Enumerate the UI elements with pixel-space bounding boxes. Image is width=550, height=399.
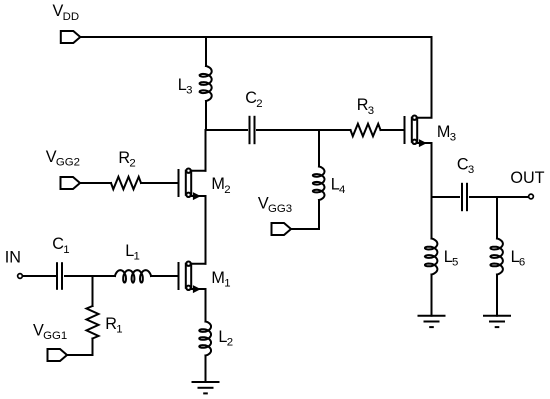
label C2 [245, 89, 262, 110]
svg-text:DD: DD [63, 11, 79, 23]
ground under L5 [419, 316, 445, 327]
wire VGG2 to R2 [80, 182, 111, 184]
wire C3 to OUT (via L6 tap) [470, 196, 528, 198]
svg-text:3: 3 [450, 132, 456, 144]
svg-text:2: 2 [129, 158, 135, 170]
transistor M3 [405, 116, 432, 147]
label R3 [357, 96, 374, 117]
svg-text:R: R [357, 96, 369, 114]
svg-text:3: 3 [468, 164, 474, 176]
terminal OUT [529, 194, 534, 199]
wire L6 bottom lead [496, 275, 498, 316]
wire node X to C2 [206, 129, 247, 131]
label VGG1 [33, 321, 67, 342]
resistor R1 [87, 306, 99, 339]
label L5 [444, 248, 459, 269]
svg-text:M: M [211, 269, 224, 287]
svg-text:2: 2 [256, 98, 262, 110]
inductor L5 [425, 239, 438, 275]
label VDD [53, 2, 80, 23]
svg-text:2: 2 [224, 184, 230, 196]
label C3 [457, 155, 474, 176]
svg-text:R: R [105, 315, 117, 333]
port VDD [61, 31, 81, 43]
wire M2 drain up to node X [205, 130, 207, 171]
svg-text:M: M [437, 123, 450, 141]
wire R1 bottom lead [92, 339, 94, 356]
wire VDD drop to M3 drain [431, 37, 433, 118]
svg-text:GG3: GG3 [268, 203, 292, 215]
wire VGG1 to R1 [67, 354, 93, 356]
wire L2 to ground [205, 356, 207, 383]
transistor M1 [179, 262, 206, 293]
label R1 [105, 315, 122, 336]
wire L1 to M1 gate [151, 275, 179, 277]
label VGG2 [46, 148, 80, 169]
label M3 [437, 123, 456, 144]
capacitor C3 [462, 184, 467, 210]
port VGG2 [61, 177, 81, 189]
wire R1 top lead [92, 276, 94, 306]
label M2 [211, 175, 230, 196]
svg-text:GG2: GG2 [56, 157, 80, 169]
svg-text:6: 6 [519, 257, 525, 269]
svg-text:1: 1 [224, 277, 230, 289]
svg-text:IN: IN [5, 249, 21, 267]
label OUT [510, 169, 544, 187]
label IN [5, 249, 21, 267]
port VGG1 [48, 349, 68, 361]
inductor L4 [313, 167, 325, 201]
label VGG3 [258, 194, 292, 215]
wire M1 source down [205, 289, 207, 322]
inductor L2 [199, 322, 211, 356]
label L3 [178, 76, 193, 97]
wire L5 bottom lead [431, 275, 433, 316]
svg-text:1: 1 [134, 251, 140, 263]
inductor L1 [115, 270, 151, 283]
ground under L6 [484, 316, 510, 327]
label L6 [511, 248, 526, 269]
svg-text:3: 3 [368, 105, 374, 117]
svg-text:OUT: OUT [510, 169, 544, 187]
wire VDD rail [80, 36, 431, 38]
wire VGG3 to L4 [291, 228, 319, 230]
wire R3 to M3 gate [381, 129, 405, 131]
svg-text:4: 4 [339, 184, 345, 196]
wire M3 source to C3 [432, 196, 460, 198]
wire C2 to R3 (via L4 tap) [257, 129, 351, 131]
label C1 [52, 235, 69, 256]
resistor R3 [351, 124, 381, 136]
inductor L6 [490, 239, 503, 275]
svg-text:1: 1 [63, 244, 69, 256]
label L1 [125, 242, 140, 263]
wire L6 top lead [496, 197, 498, 239]
resistor R2 [111, 177, 141, 189]
wire IN to C1 [23, 275, 57, 277]
svg-text:M: M [211, 175, 224, 193]
wire L4 bottom lead [318, 200, 320, 229]
label M1 [211, 269, 230, 290]
label L4 [331, 176, 346, 197]
wire L3 bottom lead [205, 101, 207, 130]
inductor L3 [200, 66, 212, 101]
wire R2 to M2 gate [141, 182, 179, 184]
label R2 [118, 149, 135, 170]
svg-text:1: 1 [116, 324, 122, 336]
terminal IN [18, 274, 23, 279]
transistor M2 [179, 169, 206, 200]
label L2 [218, 328, 233, 349]
wire L4 top lead [318, 130, 320, 167]
port VGG3 [272, 223, 292, 235]
svg-text:3: 3 [186, 85, 192, 97]
capacitor C1 [57, 263, 62, 289]
svg-text:R: R [118, 149, 130, 167]
wire M2 source to M1 drain [205, 196, 207, 264]
wire L5 top lead [431, 197, 433, 239]
ground under L2 [193, 382, 219, 393]
wire C1 to L1 (via R1 tap) [65, 275, 115, 277]
wire L3 top lead [205, 37, 207, 66]
wire M3 source down [431, 143, 433, 197]
svg-text:5: 5 [452, 257, 458, 269]
svg-text:GG1: GG1 [43, 330, 67, 342]
capacitor C2 [250, 117, 255, 143]
svg-text:2: 2 [227, 337, 233, 349]
